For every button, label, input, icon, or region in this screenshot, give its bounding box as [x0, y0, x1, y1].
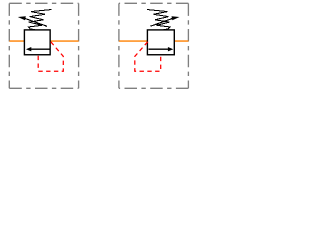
pressure regulator V1 body [24, 30, 50, 55]
flow path arrow inside V2 [149, 47, 174, 51]
adjustment arrow of V1 [18, 16, 47, 26]
wire: pressure line inlet P2 (orange) [119, 40, 147, 42]
wire: pressure line outlet A2 (orange) [174, 40, 188, 42]
wire: pressure line inlet P1 (orange) [9, 40, 24, 42]
spring (adjustable) of V2 [147, 10, 170, 30]
pilot control line of V2 (red dashed) [135, 42, 161, 71]
pressure regulator V2 body [147, 30, 174, 55]
spring (adjustable) of V1 [28, 10, 51, 30]
enclosure frame (dashed, regulator 1) [9, 3, 78, 88]
flow path arrow inside V1 [26, 47, 50, 51]
pilot control line of V1 (red dashed) [38, 42, 63, 71]
enclosure frame (dashed, regulator 2) [119, 3, 188, 88]
adjustment arrow of V2 [150, 16, 179, 26]
wire: pressure line outlet A1 (orange) [50, 40, 79, 42]
